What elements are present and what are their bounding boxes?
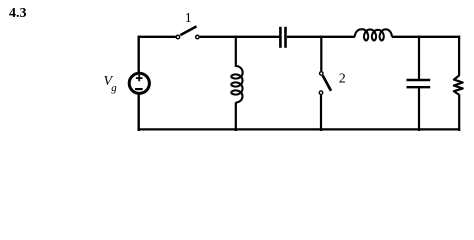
minus sign: [135, 88, 143, 90]
wire bottom rail: [138, 128, 461, 130]
capacitor C2 top plate: [407, 79, 431, 81]
wire capacitor C2 branch upper: [418, 36, 420, 79]
wire inductor L1 branch lower: [235, 102, 237, 131]
wire right rail upper: [458, 36, 460, 76]
wire inductor L1 branch upper: [235, 36, 237, 67]
svg-text:4.3: 4.3: [9, 6, 27, 21]
capacitor C1 right plate: [284, 27, 287, 48]
wire top rail: capacitor C1 to inductor L2: [287, 36, 355, 38]
wire top rail: switch 1 to capacitor C1: [200, 36, 280, 38]
switch 2 bottom contact: [319, 91, 323, 95]
wire left rail lower: [137, 94, 139, 131]
inductor L1 (vertical coil): [231, 66, 242, 103]
wire top rail: inductor L2 to right corner: [392, 36, 460, 38]
voltage source Vg circle: [129, 73, 149, 93]
switch 2 top contact: [320, 72, 324, 76]
switch 1 left contact: [176, 35, 180, 39]
svg-text:2: 2: [339, 72, 346, 87]
switch 1 blade: [180, 26, 196, 35]
wire switch 2 branch lower: [320, 95, 322, 131]
wire switch 2 branch upper: [320, 36, 322, 72]
svg-text:g: g: [111, 82, 117, 94]
wire capacitor C2 branch lower: [418, 88, 420, 131]
capacitor C1 left plate: [279, 27, 282, 48]
switch 1 right contact: [196, 35, 200, 39]
wire top rail: source to switch 1: [139, 36, 176, 38]
switch 2 blade: [323, 76, 331, 91]
capacitor C2 bottom plate: [407, 86, 431, 88]
svg-text:1: 1: [185, 11, 192, 26]
wire right rail lower: [458, 95, 460, 131]
resistor R (vertical zigzag): [454, 75, 463, 95]
inductor L2 (horizontal coil): [355, 29, 392, 40]
wire left rail upper: [137, 36, 139, 73]
plus sign: [136, 75, 143, 81]
